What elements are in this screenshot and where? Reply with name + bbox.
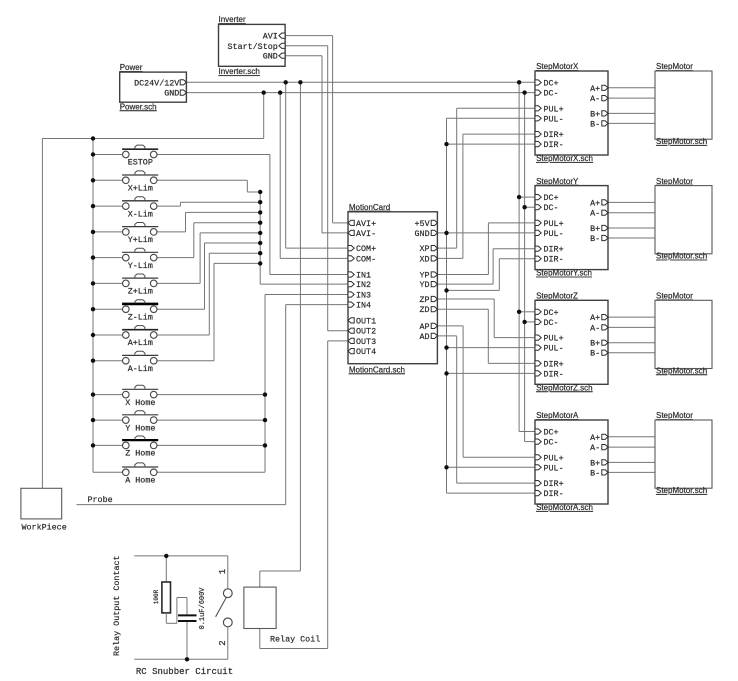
svg-text:ZP: ZP (420, 295, 430, 305)
svg-text:RC Snubber Circuit: RC Snubber Circuit (136, 667, 233, 677)
svg-text:Relay Coil: Relay Coil (270, 635, 320, 645)
svg-text:Z Home: Z Home (125, 449, 155, 459)
svg-text:StepMotor: StepMotor (656, 177, 693, 186)
svg-text:MotionCard: MotionCard (349, 203, 390, 212)
svg-text:OUT2: OUT2 (356, 327, 376, 337)
svg-text:PUL+: PUL+ (544, 453, 564, 463)
svg-text:StepMotor.sch: StepMotor.sch (656, 252, 707, 261)
svg-text:A-: A- (590, 323, 600, 333)
svg-text:A+: A+ (590, 433, 600, 443)
svg-text:PUL-: PUL- (544, 229, 564, 239)
svg-text:StepMotorA: StepMotorA (536, 411, 579, 420)
svg-text:StepMotorX.sch: StepMotorX.sch (536, 154, 593, 163)
svg-text:A Home: A Home (125, 476, 155, 486)
svg-text:IN2: IN2 (356, 280, 371, 290)
svg-text:DIR+: DIR+ (544, 359, 564, 369)
svg-text:DC24V/12V: DC24V/12V (134, 78, 179, 88)
svg-text:Z+Lim: Z+Lim (128, 287, 153, 297)
svg-text:StepMotorZ.sch: StepMotorZ.sch (536, 383, 592, 392)
svg-text:StepMotorY.sch: StepMotorY.sch (536, 269, 592, 278)
svg-text:StepMotorX: StepMotorX (536, 62, 579, 71)
svg-text:IN1: IN1 (356, 271, 371, 281)
svg-text:DIR-: DIR- (544, 255, 564, 265)
svg-text:A+Lim: A+Lim (128, 338, 153, 348)
svg-text:DIR+: DIR+ (544, 245, 564, 255)
svg-text:IN4: IN4 (356, 301, 371, 311)
svg-text:A+: A+ (590, 84, 600, 94)
svg-text:Inverter.sch: Inverter.sch (219, 67, 260, 76)
svg-text:Start/Stop: Start/Stop (228, 42, 278, 52)
svg-text:ESTOP: ESTOP (128, 158, 153, 168)
svg-text:DC+: DC+ (544, 79, 559, 89)
svg-text:X-Lim: X-Lim (128, 209, 153, 219)
svg-text:OUT3: OUT3 (356, 337, 376, 347)
svg-text:AVI+: AVI+ (356, 219, 376, 229)
svg-text:DC+: DC+ (544, 193, 559, 203)
svg-text:GND: GND (164, 89, 179, 99)
svg-text:IN3: IN3 (356, 291, 371, 301)
svg-text:GND: GND (263, 52, 278, 62)
svg-text:X Home: X Home (125, 398, 155, 408)
svg-text:StepMotor.sch: StepMotor.sch (656, 366, 707, 375)
svg-text:DC-: DC- (544, 89, 559, 99)
svg-text:DIR-: DIR- (544, 140, 564, 150)
svg-text:COM+: COM+ (356, 244, 376, 254)
svg-text:StepMotor.sch: StepMotor.sch (656, 137, 707, 146)
svg-text:MotionCard.sch: MotionCard.sch (349, 365, 405, 374)
svg-text:DC-: DC- (544, 203, 559, 213)
svg-text:DIR+: DIR+ (544, 479, 564, 489)
svg-text:DIR+: DIR+ (544, 130, 564, 140)
svg-text:Y Home: Y Home (125, 423, 155, 433)
svg-text:1: 1 (218, 569, 228, 574)
svg-text:Inverter: Inverter (219, 15, 246, 24)
svg-text:StepMotorY: StepMotorY (536, 177, 579, 186)
svg-text:B-: B- (590, 234, 600, 244)
svg-text:StepMotor: StepMotor (656, 411, 693, 420)
svg-text:PUL-: PUL- (544, 463, 564, 473)
svg-text:DC+: DC+ (544, 428, 559, 438)
svg-text:WorkPiece: WorkPiece (22, 523, 67, 533)
svg-text:PUL+: PUL+ (544, 334, 564, 344)
svg-text:XP: XP (420, 244, 430, 254)
svg-text:B+: B+ (590, 458, 600, 468)
svg-text:AP: AP (420, 322, 430, 332)
svg-text:Y+Lim: Y+Lim (128, 235, 153, 245)
svg-text:Power: Power (120, 63, 143, 72)
svg-text:OUT1: OUT1 (356, 316, 376, 326)
svg-text:B+: B+ (590, 339, 600, 349)
svg-text:COM-: COM- (356, 254, 376, 264)
svg-text:StepMotorZ: StepMotorZ (536, 292, 578, 301)
svg-text:A-: A- (590, 443, 600, 453)
svg-text:A+: A+ (590, 198, 600, 208)
svg-text:DC+: DC+ (544, 308, 559, 318)
svg-text:A+: A+ (590, 313, 600, 323)
svg-text:PUL+: PUL+ (544, 104, 564, 114)
svg-text:A-Lim: A-Lim (128, 364, 153, 374)
svg-text:Z-Lim: Z-Lim (128, 312, 153, 322)
svg-text:+5V: +5V (415, 219, 430, 229)
svg-text:DIR-: DIR- (544, 489, 564, 499)
svg-text:B+: B+ (590, 224, 600, 234)
svg-text:StepMotor: StepMotor (656, 292, 693, 301)
svg-text:AVI: AVI (263, 32, 278, 42)
svg-text:2: 2 (218, 640, 228, 645)
svg-text:DC-: DC- (544, 438, 559, 448)
svg-text:PUL-: PUL- (544, 114, 564, 124)
svg-text:B+: B+ (590, 109, 600, 119)
svg-text:0.1uF/600V: 0.1uF/600V (199, 587, 207, 630)
svg-text:A-: A- (590, 209, 600, 219)
svg-text:XD: XD (420, 254, 430, 264)
svg-text:DIR-: DIR- (544, 369, 564, 379)
svg-text:DC-: DC- (544, 318, 559, 328)
svg-text:Relay Output Contact: Relay Output Contact (112, 555, 122, 656)
svg-text:B-: B- (590, 468, 600, 478)
svg-text:AD: AD (420, 332, 430, 342)
svg-text:StepMotor: StepMotor (656, 62, 693, 71)
svg-text:YP: YP (420, 271, 430, 281)
svg-text:Probe: Probe (88, 495, 113, 505)
svg-text:ZD: ZD (420, 305, 430, 315)
svg-text:YD: YD (420, 280, 430, 290)
svg-text:StepMotor.sch: StepMotor.sch (656, 486, 707, 495)
svg-text:B-: B- (590, 119, 600, 129)
svg-text:OUT4: OUT4 (356, 347, 376, 357)
svg-text:100R: 100R (153, 589, 160, 604)
svg-text:A-: A- (590, 94, 600, 104)
svg-text:X+Lim: X+Lim (128, 184, 153, 194)
svg-text:Y-Lim: Y-Lim (128, 261, 153, 271)
svg-text:Power.sch: Power.sch (120, 102, 157, 111)
svg-text:GND: GND (415, 229, 430, 239)
svg-text:AVI-: AVI- (356, 229, 376, 239)
svg-text:B-: B- (590, 349, 600, 359)
svg-text:PUL+: PUL+ (544, 219, 564, 229)
svg-text:StepMotorA.sch: StepMotorA.sch (536, 503, 593, 512)
svg-text:PUL-: PUL- (544, 344, 564, 354)
